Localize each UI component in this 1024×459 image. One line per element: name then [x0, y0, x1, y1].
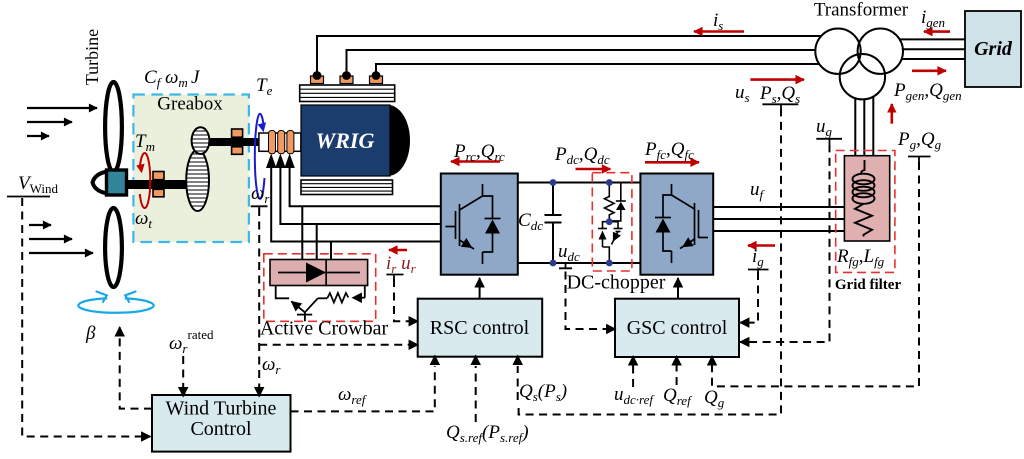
svg-text:Cdc: Cdc [518, 210, 543, 233]
svg-text:Prc,Qrc: Prc,Qrc [453, 141, 505, 164]
svg-text:J: J [191, 67, 201, 88]
svg-text:Wind Turbine: Wind Turbine [166, 398, 277, 420]
svg-text:Active Crowbar: Active Crowbar [260, 318, 389, 340]
svg-text:WRIG: WRIG [316, 128, 375, 153]
svg-text:Te: Te [256, 75, 273, 98]
svg-text:udc·ref: udc·ref [614, 384, 655, 407]
svg-text:Rfg,Lfg: Rfg,Lfg [836, 246, 885, 269]
svg-text:igen: igen [921, 7, 945, 30]
svg-text:ωref: ωref [338, 384, 368, 407]
svg-text:Qs.ref(Ps.ref): Qs.ref(Ps.ref) [446, 422, 529, 445]
svg-text:RSC control: RSC control [430, 317, 530, 339]
svg-text:ig: ig [752, 246, 764, 269]
svg-text:Pgen,Qgen: Pgen,Qgen [893, 80, 962, 103]
svg-text:us: us [735, 82, 750, 105]
svg-text:Control: Control [190, 418, 252, 440]
svg-text:ug: ug [816, 116, 833, 139]
svg-text:DC-chopper: DC-chopper [567, 272, 666, 294]
svg-text:Qg: Qg [704, 387, 725, 410]
svg-text:Pfc,Qfc: Pfc,Qfc [644, 139, 694, 162]
svg-text:Grid filter: Grid filter [835, 277, 902, 293]
svg-text:is: is [713, 10, 723, 33]
svg-text:Qs(Ps): Qs(Ps) [519, 381, 567, 404]
svg-text:VWind: VWind [18, 173, 58, 196]
svg-text:ωr: ωr [262, 354, 281, 377]
svg-text:ωr: ωr [251, 183, 270, 206]
svg-text:Pg,Qg: Pg,Qg [897, 129, 942, 152]
svg-text:uf: uf [750, 179, 766, 202]
svg-text:ir ur: ir ur [386, 253, 417, 276]
svg-text:Qref: Qref [663, 385, 693, 408]
svg-text:udc: udc [558, 241, 580, 264]
svg-text:Turbine: Turbine [82, 29, 102, 85]
svg-text:GSC control: GSC control [627, 317, 728, 339]
svg-text:β: β [85, 323, 96, 344]
svg-text:Transformer: Transformer [814, 0, 909, 21]
svg-text:ωm: ωm [165, 67, 188, 90]
svg-text:Greabox: Greabox [157, 94, 223, 115]
svg-text:Ps,Qs: Ps,Qs [759, 83, 800, 106]
svg-text:Cf: Cf [144, 67, 163, 90]
svg-text:ωrrated: ωrrated [169, 327, 214, 356]
svg-text:Pdc,Qdc: Pdc,Qdc [554, 144, 610, 167]
svg-text:Grid: Grid [974, 38, 1013, 60]
